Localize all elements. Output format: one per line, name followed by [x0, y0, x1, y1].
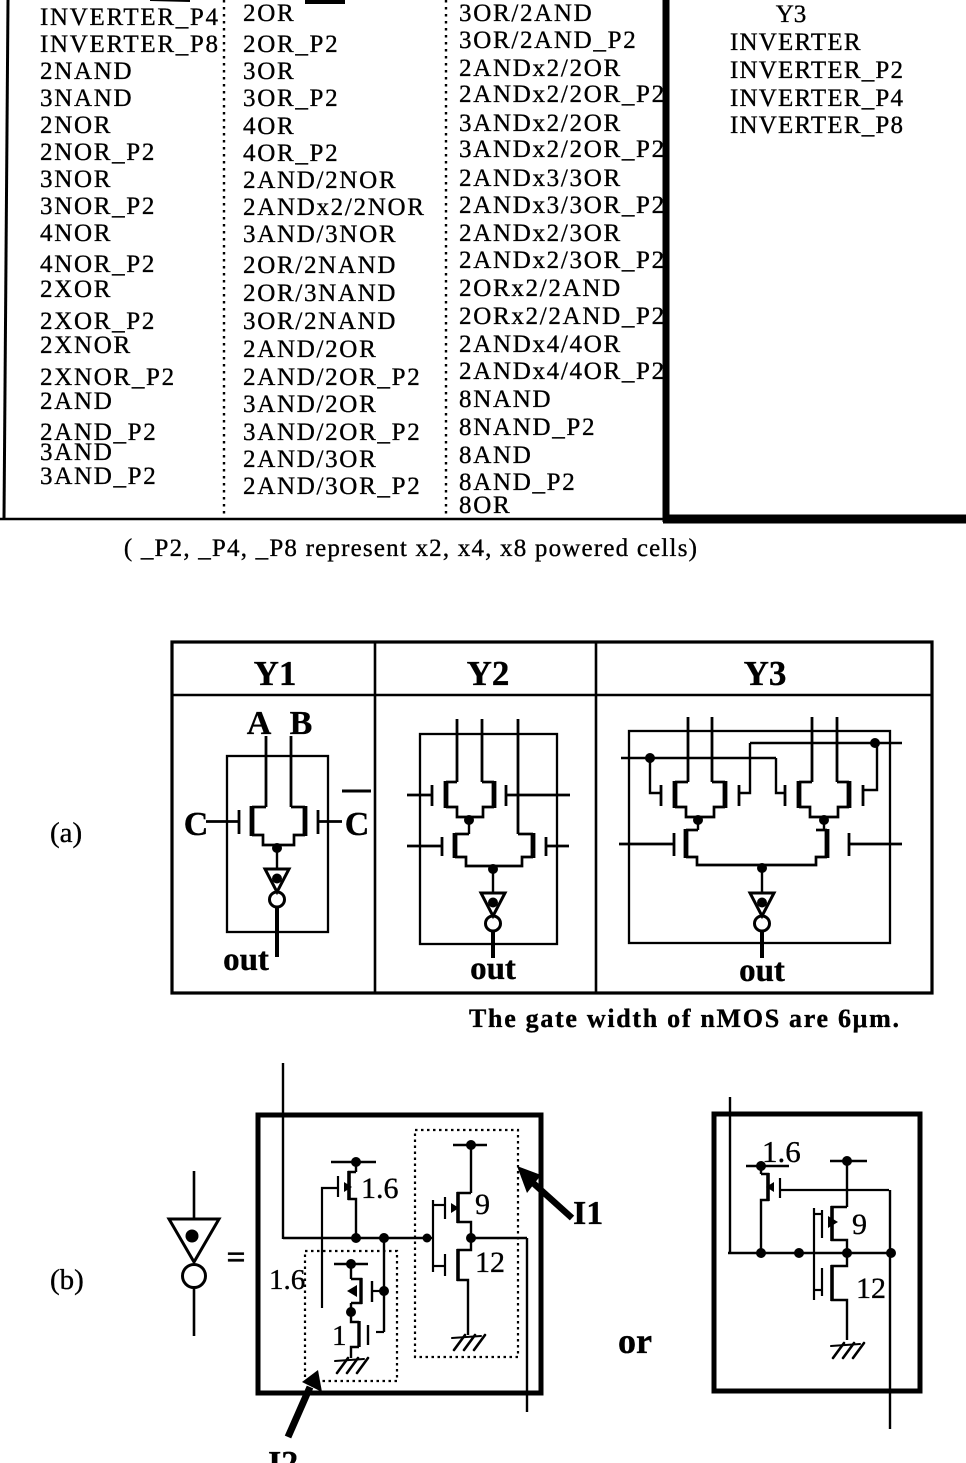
svg-text:8AND: 8AND [459, 442, 532, 469]
wire input 2 [711, 717, 714, 782]
svg-text:8OR: 8OR [459, 492, 511, 519]
Y3 upper-left mux M1/M2: pass-transistor pair [661, 781, 739, 825]
overbar of C-bar [342, 790, 371, 793]
net select-1 cross wire [621, 757, 776, 759]
svg-text:C: C [345, 806, 370, 843]
wire input (right box) [729, 1097, 731, 1253]
svg-text:I1: I1 [573, 1195, 603, 1232]
junction inverter output (right) [842, 1248, 852, 1258]
svg-text:2AND/3OR: 2AND/3OR [243, 446, 377, 473]
wire right node down [823, 820, 825, 830]
wire below symbol [193, 1288, 196, 1336]
svg-text:or: or [618, 1321, 652, 1361]
svg-text:12: 12 [475, 1246, 505, 1279]
svg-text:B: B [290, 705, 313, 742]
cropped text fragment top-left [150, 0, 190, 1]
wire node to inverter [492, 869, 494, 893]
wire I1 output [471, 1237, 527, 1239]
transistor P5 pMOS 9 (right) [822, 1156, 867, 1253]
junction I2 node [346, 1307, 356, 1317]
junction on select-2 [870, 738, 880, 748]
svg-text:out: out [223, 942, 269, 978]
wire inverter output [275, 907, 279, 957]
junction I2 gate [379, 1286, 389, 1296]
svg-text:12: 12 [856, 1272, 886, 1305]
Y1 cell boundary box [227, 756, 328, 932]
svg-text:3NAND: 3NAND [40, 85, 133, 112]
svg-text:INVERTER_P8: INVERTER_P8 [40, 31, 220, 58]
wire I2 gate feed [383, 1238, 385, 1332]
svg-text:3OR/2AND_P2: 3OR/2AND_P2 [459, 27, 637, 54]
svg-text:3NOR: 3NOR [40, 166, 112, 193]
table left border [4, 0, 8, 519]
svg-text:3AND_P2: 3AND_P2 [40, 463, 157, 490]
svg-text:2OR: 2OR [243, 0, 295, 27]
svg-text:INVERTER_P4: INVERTER_P4 [40, 4, 220, 31]
svg-text:2ANDx3/3OR: 2ANDx3/3OR [459, 165, 622, 192]
svg-text:(a): (a) [50, 817, 82, 849]
Y1 mux M1/M2: pass-transistor pair [206, 806, 342, 853]
svg-text:Y2: Y2 [467, 654, 510, 693]
transistor P3 pMOS keeper (I2) [334, 1259, 382, 1304]
svg-text:2ANDx2/2OR: 2ANDx2/2OR [459, 55, 622, 82]
wire node to inverter [276, 848, 278, 869]
wire select-1 to left gate [650, 758, 661, 793]
svg-text:Y3: Y3 [744, 654, 787, 693]
svg-text:2AND/2OR: 2AND/2OR [243, 336, 377, 363]
junction feedback [886, 1248, 896, 1258]
table dotted column separator 2 [445, 0, 447, 519]
svg-text:8NAND_P2: 8NAND_P2 [459, 414, 596, 441]
wire inverter output [491, 931, 495, 958]
svg-text:I2: I2 [268, 1445, 298, 1463]
svg-text:3NOR_P2: 3NOR_P2 [40, 193, 156, 220]
wire gate line of I1 [427, 1237, 433, 1239]
implementation box (left) [258, 1115, 541, 1393]
svg-text:2OR/3NAND: 2OR/3NAND [243, 280, 397, 307]
svg-text:2XNOR_P2: 2XNOR_P2 [40, 364, 176, 391]
Y2 upper mux M1/M2: pass-transistor pair [407, 781, 570, 825]
wire gate line (right inverter) [813, 1208, 815, 1300]
svg-text:INVERTER: INVERTER [730, 29, 862, 56]
Y3 upper-right mux M3/M4: pass-transistor pair [785, 781, 863, 825]
svg-text:=: = [226, 1239, 245, 1276]
svg-text:2NAND: 2NAND [40, 58, 133, 85]
svg-text:3OR: 3OR [243, 58, 295, 85]
svg-text:2OR/2NAND: 2OR/2NAND [243, 252, 397, 279]
svg-text:9: 9 [852, 1208, 867, 1241]
svg-text:3AND: 3AND [40, 439, 113, 466]
wire feedback and output (right box) [889, 1190, 891, 1429]
svg-text:2ANDx4/4OR: 2ANDx4/4OR [459, 331, 622, 358]
svg-text:2ORx2/2AND: 2ORx2/2AND [459, 275, 622, 302]
wire input 2 [481, 719, 484, 782]
svg-text:C: C [184, 806, 209, 843]
table thick column separator [663, 0, 670, 522]
wire input 3 [811, 717, 814, 782]
dotted outline I1 [415, 1130, 518, 1357]
svg-text:(b): (b) [50, 1264, 84, 1296]
table thick bottom rule (right section) [663, 515, 966, 524]
svg-text:1.6: 1.6 [361, 1172, 399, 1205]
inverter U3 [750, 893, 774, 931]
junction input to I1 gate [423, 1234, 432, 1243]
figure (a) divider Y2/Y3 [595, 642, 598, 993]
table thin bottom rule [0, 518, 663, 521]
transistor N1 nMOS 12 (inverter I1) [445, 1238, 471, 1335]
junction on select-1 [645, 753, 655, 763]
svg-text:3OR_P2: 3OR_P2 [243, 85, 339, 112]
figure (a) header rule [172, 694, 932, 697]
junction gate tap [794, 1248, 804, 1258]
svg-text:INVERTER_P4: INVERTER_P4 [730, 85, 904, 112]
Y2 cell boundary box [420, 734, 557, 944]
svg-text:2NOR: 2NOR [40, 112, 112, 139]
dotted outline I2 [305, 1251, 397, 1381]
wire P3 drain [350, 1303, 352, 1312]
svg-text:4OR: 4OR [243, 113, 295, 140]
inverter U2 [481, 893, 505, 931]
svg-text:2ANDx2/3OR_P2: 2ANDx2/3OR_P2 [459, 247, 666, 274]
ground (right box) [831, 1343, 864, 1358]
wire select-2 to right-pair right gate [863, 743, 877, 790]
wire input 1 [687, 717, 690, 782]
svg-text:1.6: 1.6 [269, 1264, 305, 1296]
svg-text:out: out [470, 951, 516, 987]
junction to I2 gate [379, 1233, 389, 1243]
transistor N4 nMOS 12 (right) [822, 1253, 847, 1340]
svg-text:1.6: 1.6 [762, 1134, 801, 1169]
transistor N3 nMOS 1 (I2) [351, 1312, 384, 1358]
svg-text:2NOR_P2: 2NOR_P2 [40, 139, 156, 166]
svg-text:8NAND: 8NAND [459, 386, 552, 413]
Y3 lower mux M5/M6: pass-transistor pair [619, 829, 902, 873]
wire input 1 [456, 719, 459, 782]
wire output node (right box) [728, 1252, 891, 1254]
transistor P4 pMOS keeper 1.6 (right) [746, 1161, 889, 1253]
table dotted column separator 1 [223, 0, 225, 519]
svg-text:2ANDx2/2OR_P2: 2ANDx2/2OR_P2 [459, 81, 666, 108]
svg-text:( _P2, _P4, _P8 represent x2,: ( _P2, _P4, _P8 represent x2, x4, x8 pow… [124, 535, 698, 562]
svg-text:3ANDx2/2OR_P2: 3ANDx2/2OR_P2 [459, 136, 666, 163]
svg-text:9: 9 [475, 1188, 490, 1221]
cropped text fragment top [305, 0, 345, 4]
net select-2 cross wire [750, 742, 902, 744]
svg-text:3AND/2OR_P2: 3AND/2OR_P2 [243, 419, 421, 446]
svg-text:1: 1 [332, 1320, 347, 1352]
svg-text:2XOR: 2XOR [40, 276, 112, 303]
svg-text:3ANDx2/2OR: 3ANDx2/2OR [459, 110, 622, 137]
svg-text:4OR_P2: 4OR_P2 [243, 140, 339, 167]
svg-text:2AND/2NOR: 2AND/2NOR [243, 167, 397, 194]
wire input node [283, 1237, 427, 1239]
svg-text:2ANDx3/3OR_P2: 2ANDx3/3OR_P2 [459, 192, 666, 219]
wire input 4 [836, 717, 839, 782]
inverter symbol (triangle with dot and bubble) [193, 1171, 196, 1219]
wire node to inverter [761, 868, 763, 893]
svg-text:2XNOR: 2XNOR [40, 332, 132, 359]
wire input A [265, 736, 268, 807]
svg-text:4NOR: 4NOR [40, 220, 112, 247]
ground (I1) [452, 1335, 485, 1350]
svg-text:2ANDx4/4OR_P2: 2ANDx4/4OR_P2 [459, 358, 666, 385]
svg-text:2OR_P2: 2OR_P2 [243, 31, 339, 58]
svg-text:2ANDx2/2NOR: 2ANDx2/2NOR [243, 194, 426, 221]
wire input (left box) [282, 1063, 284, 1239]
svg-text:Y1: Y1 [254, 654, 297, 693]
inverter U1 (level-restoring) [265, 869, 289, 907]
figure (a) outer frame [172, 642, 932, 993]
svg-text:The gate width of nMOS are 6μm: The gate width of nMOS are 6μm. [469, 1004, 901, 1033]
wire select-1 to right-pair left gate [776, 758, 785, 793]
ground (I2) [335, 1358, 368, 1373]
junction P4 drain [756, 1248, 766, 1258]
wire select-2 to left-pair right gate [739, 743, 750, 793]
Y3 cell boundary box [629, 731, 890, 943]
svg-text:2AND/3OR_P2: 2AND/3OR_P2 [243, 473, 421, 500]
svg-text:Y3: Y3 [776, 1, 807, 28]
junction P1 drain [351, 1233, 361, 1243]
svg-text:3OR/2AND: 3OR/2AND [459, 0, 593, 27]
figure (a) divider Y1/Y2 [374, 642, 377, 993]
wire inverter output [760, 931, 764, 958]
svg-text:2AND: 2AND [40, 388, 113, 415]
wire input 3 [517, 719, 520, 834]
junction I1 output [466, 1233, 476, 1243]
svg-text:2AND/2OR_P2: 2AND/2OR_P2 [243, 364, 421, 391]
Y2 lower mux M3/M4: pass-transistor pair [407, 833, 569, 874]
wire output down (left box) [526, 1238, 528, 1412]
implementation box (right) [714, 1114, 920, 1391]
svg-text:out: out [739, 953, 785, 989]
wire upper node down [468, 820, 470, 834]
svg-text:2ANDx2/3OR: 2ANDx2/3OR [459, 220, 622, 247]
svg-text:INVERTER_P8: INVERTER_P8 [730, 112, 904, 139]
svg-text:3OR/2NAND: 3OR/2NAND [243, 308, 397, 335]
svg-text:4NOR_P2: 4NOR_P2 [40, 251, 156, 278]
wire left node down [697, 820, 699, 830]
svg-text:INVERTER_P2: INVERTER_P2 [730, 57, 904, 84]
arrow to I1 [517, 1166, 572, 1218]
transistor P1 pMOS keeper 1.6 [322, 1157, 376, 1308]
arrow to I2 [288, 1370, 322, 1437]
svg-text:A: A [247, 705, 272, 742]
transistor P2 pMOS 9 (inverter I1) [445, 1140, 487, 1238]
svg-text:3AND/2OR: 3AND/2OR [243, 391, 377, 418]
svg-text:2XOR_P2: 2XOR_P2 [40, 308, 156, 335]
wire input B [290, 736, 293, 807]
svg-text:3AND/3NOR: 3AND/3NOR [243, 221, 397, 248]
svg-text:2ORx2/2AND_P2: 2ORx2/2AND_P2 [459, 303, 666, 330]
